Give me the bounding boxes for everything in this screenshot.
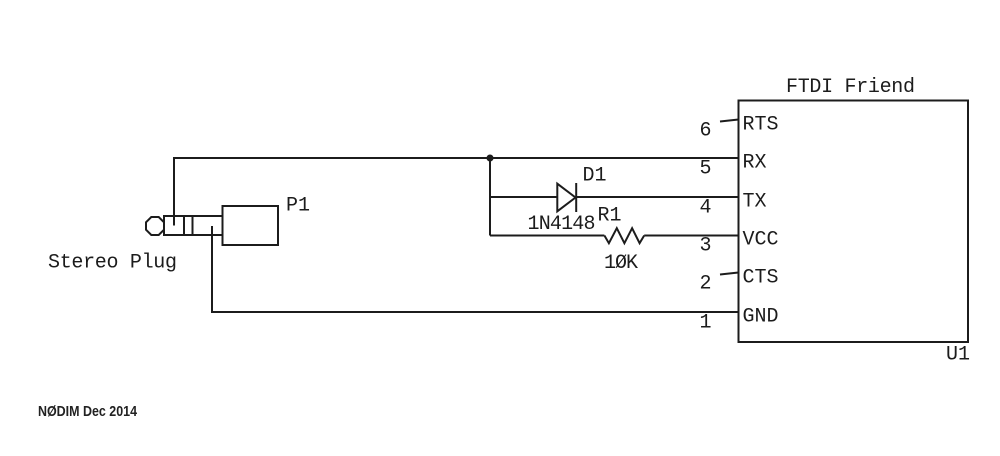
svg-text:1ØK: 1ØK xyxy=(604,252,638,275)
wire junction to D1 anode xyxy=(490,196,557,198)
wire plug tip to RX pin 5 xyxy=(174,158,739,226)
svg-text:D1: D1 xyxy=(583,165,607,188)
svg-text:RX: RX xyxy=(743,152,767,175)
svg-text:RTS: RTS xyxy=(743,114,779,137)
svg-text:R1: R1 xyxy=(598,205,622,228)
IC U1 FTDI Friend box xyxy=(739,101,969,343)
svg-text:NØDIM Dec 2014: NØDIM Dec 2014 xyxy=(38,403,138,420)
svg-text:5: 5 xyxy=(700,158,712,181)
wire D1 cathode to TX pin 4 xyxy=(577,196,739,198)
svg-text:6: 6 xyxy=(700,120,712,143)
svg-text:3: 3 xyxy=(700,235,712,258)
wire junction down xyxy=(489,158,491,236)
diode D1 xyxy=(557,183,576,212)
svg-text:GND: GND xyxy=(743,306,779,329)
pin 2 stub xyxy=(720,273,739,275)
wire R1 to VCC pin 3 xyxy=(644,235,738,237)
wire plug sleeve to GND pin 1 xyxy=(212,226,739,312)
pin 6 stub xyxy=(720,120,739,122)
svg-text:1: 1 xyxy=(700,312,712,335)
svg-text:TX: TX xyxy=(743,191,767,214)
svg-text:Stereo Plug: Stereo Plug xyxy=(48,252,177,275)
svg-text:U1: U1 xyxy=(946,344,970,367)
svg-text:2: 2 xyxy=(700,273,712,296)
svg-text:4: 4 xyxy=(700,197,712,220)
svg-text:CTS: CTS xyxy=(743,267,779,290)
resistor R1 xyxy=(604,228,644,243)
wire junction to R1 xyxy=(490,235,604,237)
svg-text:FTDI Friend: FTDI Friend xyxy=(786,76,915,99)
svg-text:P1: P1 xyxy=(286,195,310,218)
svg-text:1N4148: 1N4148 xyxy=(528,213,596,236)
svg-text:VCC: VCC xyxy=(743,229,779,252)
connector P1 stereo plug xyxy=(146,206,278,245)
node junction xyxy=(487,155,494,162)
